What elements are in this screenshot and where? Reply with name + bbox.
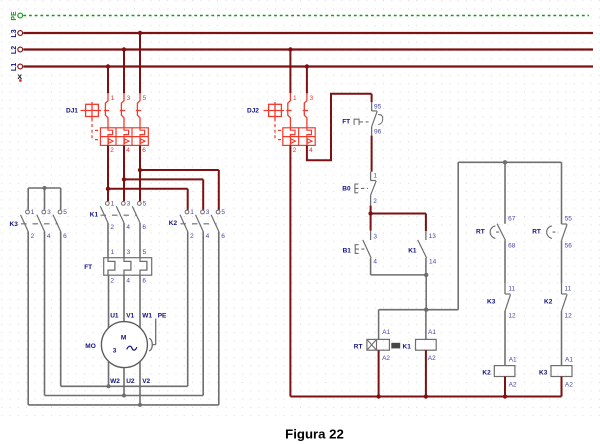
svg-text:MO: MO (85, 343, 95, 350)
svg-text:67: 67 (508, 215, 516, 222)
svg-text:3: 3 (47, 209, 51, 216)
svg-text:2: 2 (31, 233, 35, 240)
svg-text:1: 1 (190, 209, 194, 216)
svg-text:68: 68 (508, 242, 516, 249)
svg-text:RT: RT (354, 343, 363, 350)
svg-text:4: 4 (373, 259, 377, 266)
svg-text:B0: B0 (342, 185, 351, 192)
svg-text:6: 6 (142, 277, 146, 284)
svg-text:5: 5 (143, 249, 147, 256)
svg-text:1: 1 (31, 209, 35, 216)
svg-text:6: 6 (142, 147, 146, 154)
svg-text:L3: L3 (11, 29, 18, 37)
svg-text:RT: RT (476, 229, 485, 236)
svg-text:56: 56 (565, 242, 573, 249)
svg-text:3: 3 (373, 233, 377, 240)
svg-text:3: 3 (113, 347, 117, 354)
svg-text:Figura 22: Figura 22 (285, 427, 344, 442)
svg-text:K2: K2 (482, 369, 491, 376)
svg-text:W1: W1 (142, 312, 152, 319)
svg-text:6: 6 (142, 224, 146, 231)
svg-text:4: 4 (126, 277, 130, 284)
svg-text:K3: K3 (487, 299, 496, 306)
svg-text:PE: PE (11, 11, 18, 21)
svg-text:U1: U1 (110, 312, 119, 319)
svg-text:K2: K2 (544, 299, 553, 306)
svg-text:M: M (121, 334, 126, 341)
svg-text:11: 11 (565, 285, 572, 292)
svg-text:5: 5 (221, 209, 225, 216)
svg-text:2: 2 (110, 224, 114, 231)
svg-text:55: 55 (565, 215, 573, 222)
svg-text:V1: V1 (126, 312, 134, 319)
svg-text:K1: K1 (90, 212, 99, 219)
svg-text:4: 4 (126, 224, 130, 231)
svg-text:2: 2 (110, 147, 114, 154)
svg-text:5: 5 (143, 95, 147, 102)
svg-text:1: 1 (373, 173, 377, 180)
svg-text:V2: V2 (142, 378, 150, 385)
svg-text:11: 11 (508, 285, 515, 292)
svg-text:14: 14 (429, 259, 437, 266)
svg-text:95: 95 (374, 104, 382, 111)
svg-text:2: 2 (373, 198, 377, 205)
svg-text:K3: K3 (539, 369, 548, 376)
svg-text:12: 12 (565, 312, 573, 319)
svg-text:3: 3 (127, 249, 131, 256)
svg-text:2: 2 (293, 147, 297, 154)
svg-text:5: 5 (143, 201, 147, 208)
svg-text:6: 6 (221, 233, 225, 240)
svg-text:3: 3 (127, 201, 131, 208)
svg-text:A1: A1 (428, 329, 436, 336)
svg-text:3: 3 (310, 95, 314, 102)
svg-text:A2: A2 (565, 381, 573, 388)
svg-text:1: 1 (111, 249, 115, 256)
svg-text:K1: K1 (403, 343, 412, 350)
svg-text:A2: A2 (382, 355, 390, 362)
svg-text:FT: FT (84, 264, 92, 271)
svg-text:U2: U2 (126, 378, 135, 385)
svg-text:6: 6 (63, 233, 67, 240)
svg-text:3: 3 (206, 209, 210, 216)
svg-text:PE: PE (158, 312, 167, 319)
svg-text:RT: RT (532, 229, 541, 236)
svg-text:13: 13 (429, 233, 437, 240)
svg-text:DJ2: DJ2 (247, 107, 259, 114)
svg-text:A1: A1 (565, 356, 573, 363)
svg-text:A1: A1 (382, 329, 390, 336)
svg-text:4: 4 (206, 233, 210, 240)
svg-text:K3: K3 (10, 221, 19, 228)
svg-text:4: 4 (47, 233, 51, 240)
svg-text:A1: A1 (509, 356, 517, 363)
svg-text:1: 1 (111, 201, 115, 208)
svg-text:DJ1: DJ1 (66, 107, 78, 114)
svg-text:A2: A2 (428, 355, 436, 362)
svg-text:12: 12 (508, 312, 516, 319)
svg-text:4: 4 (309, 147, 313, 154)
svg-text:2: 2 (190, 233, 194, 240)
svg-text:2: 2 (110, 277, 114, 284)
svg-text:B1: B1 (343, 247, 352, 254)
svg-text:4: 4 (126, 147, 130, 154)
svg-text:W2: W2 (110, 378, 120, 385)
svg-text:1: 1 (293, 95, 297, 102)
svg-text:A2: A2 (509, 381, 517, 388)
svg-text:K2: K2 (169, 220, 178, 227)
svg-text:L2: L2 (11, 46, 18, 54)
svg-text:1: 1 (111, 95, 115, 102)
svg-text:96: 96 (374, 129, 382, 136)
svg-text:3: 3 (127, 95, 131, 102)
svg-text:5: 5 (63, 209, 67, 216)
svg-text:FT: FT (342, 119, 350, 126)
svg-text:K1: K1 (408, 247, 417, 254)
